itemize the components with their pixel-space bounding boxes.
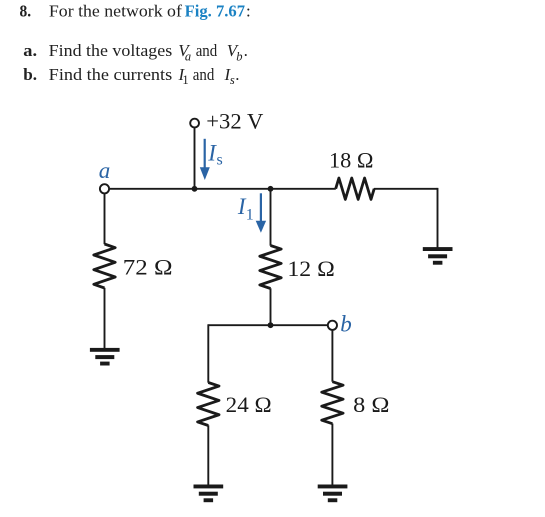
wire junction down to 12ohm bbox=[270, 189, 272, 246]
svg-text:a.: a. bbox=[23, 41, 37, 60]
wire bottom-left down to 24ohm bbox=[207, 324, 209, 382]
wire 18ohm to right corner bbox=[374, 188, 438, 190]
svg-text:and: and bbox=[196, 41, 218, 60]
resistor 12 ohm bbox=[260, 246, 281, 289]
svg-text:b.: b. bbox=[23, 65, 37, 84]
junction top-right of 12 ohm bbox=[268, 186, 274, 192]
resistor 18 ohm (horizontal) bbox=[336, 178, 375, 199]
svg-text:8 Ω: 8 Ω bbox=[353, 392, 389, 417]
wire 8ohm to ground bbox=[331, 424, 333, 486]
svg-text:and: and bbox=[193, 65, 215, 84]
resistor 8 ohm bbox=[322, 382, 343, 424]
svg-text:b: b bbox=[236, 49, 242, 63]
svg-text:8.: 8. bbox=[20, 2, 32, 21]
svg-text:a: a bbox=[185, 49, 191, 63]
ground left (72 ohm branch) bbox=[90, 348, 120, 366]
ground 8 ohm branch bbox=[318, 485, 348, 503]
resistor 72 ohm bbox=[94, 244, 115, 288]
svg-text:1: 1 bbox=[182, 73, 188, 87]
svg-text:s: s bbox=[230, 73, 235, 87]
svg-text:72 Ω: 72 Ω bbox=[123, 255, 173, 280]
svg-text:.: . bbox=[235, 65, 239, 84]
terminal node a bbox=[100, 184, 109, 193]
junction bottom rail bbox=[268, 322, 274, 328]
wire bottom horizontal rail bbox=[208, 324, 328, 326]
wire 72ohm to ground bbox=[104, 288, 106, 349]
svg-text:Find the voltages: Find the voltages bbox=[49, 41, 173, 60]
svg-text:18 Ω: 18 Ω bbox=[329, 148, 374, 173]
svg-text:+32 V: +32 V bbox=[206, 109, 263, 134]
svg-text::: : bbox=[246, 2, 251, 21]
svg-text:b: b bbox=[340, 312, 352, 337]
wire node b down to 8ohm bbox=[331, 330, 333, 382]
ground right (18 ohm branch) bbox=[423, 247, 453, 265]
svg-text:For the network of: For the network of bbox=[49, 2, 182, 21]
wire +32V stem bbox=[194, 128, 196, 189]
terminal +32V bbox=[190, 119, 199, 128]
svg-text:s: s bbox=[217, 151, 223, 168]
wire right drop to ground bbox=[437, 188, 439, 248]
svg-text:Fig. 7.67: Fig. 7.67 bbox=[185, 2, 246, 21]
current arrow Is bbox=[200, 139, 210, 180]
ground 24 ohm branch bbox=[194, 485, 224, 503]
svg-text:24 Ω: 24 Ω bbox=[226, 392, 272, 417]
svg-text:1: 1 bbox=[246, 206, 254, 223]
current arrow I1 bbox=[256, 193, 266, 233]
wire main horizontal rail bbox=[110, 188, 336, 190]
svg-text:Find the currents: Find the currents bbox=[49, 65, 173, 84]
junction top-middle bbox=[192, 186, 198, 192]
wire 24ohm to ground bbox=[207, 425, 209, 485]
wire node a down to 72ohm bbox=[104, 193, 106, 244]
resistor 24 ohm bbox=[198, 383, 219, 426]
svg-text:.: . bbox=[244, 41, 248, 60]
svg-text:a: a bbox=[99, 158, 111, 183]
wire 12ohm to bottom rail bbox=[270, 288, 272, 325]
terminal node b bbox=[328, 321, 337, 330]
svg-text:12 Ω: 12 Ω bbox=[287, 256, 335, 281]
